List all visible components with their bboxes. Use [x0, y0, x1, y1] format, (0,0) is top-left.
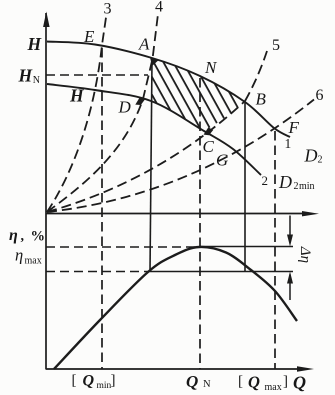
- svg-text:H: H: [27, 34, 43, 54]
- svg-text:η: η: [15, 246, 23, 265]
- svg-text:Q: Q: [248, 373, 260, 392]
- svg-text:min: min: [97, 381, 112, 391]
- svg-text:6: 6: [316, 87, 324, 104]
- svg-text:N: N: [33, 75, 40, 86]
- svg-text:C: C: [203, 137, 215, 156]
- svg-text:D: D: [278, 172, 292, 192]
- svg-text:E: E: [83, 27, 95, 46]
- svg-text:η: η: [9, 227, 18, 244]
- svg-text:Q: Q: [293, 373, 306, 393]
- svg-text:4: 4: [155, 0, 163, 16]
- svg-text:3: 3: [104, 1, 112, 18]
- svg-text:Δη: Δη: [297, 246, 313, 263]
- svg-text:5: 5: [272, 37, 280, 54]
- svg-text:H: H: [69, 86, 85, 106]
- svg-text:N: N: [204, 58, 218, 77]
- svg-text:1: 1: [285, 136, 292, 151]
- svg-text:]: ]: [111, 373, 116, 389]
- svg-text:,: ,: [21, 229, 25, 244]
- svg-text:Q: Q: [83, 373, 95, 390]
- svg-text:Q: Q: [186, 372, 198, 391]
- svg-text:D: D: [118, 98, 132, 117]
- svg-text:%: %: [31, 229, 46, 245]
- svg-text:N: N: [203, 379, 211, 390]
- svg-text:[: [: [238, 374, 243, 390]
- svg-text:A: A: [138, 35, 150, 54]
- svg-text:2min: 2min: [294, 181, 315, 192]
- svg-text:H: H: [18, 66, 34, 86]
- svg-text:[: [: [72, 373, 77, 389]
- svg-text:max: max: [265, 382, 282, 393]
- svg-text:2: 2: [318, 155, 323, 166]
- svg-text:B: B: [256, 90, 267, 109]
- svg-text:F: F: [288, 118, 300, 137]
- svg-text:2: 2: [262, 173, 269, 188]
- svg-text:max: max: [25, 256, 42, 267]
- svg-text:G: G: [216, 151, 228, 170]
- svg-text:]: ]: [283, 374, 288, 390]
- svg-text:D: D: [304, 146, 318, 166]
